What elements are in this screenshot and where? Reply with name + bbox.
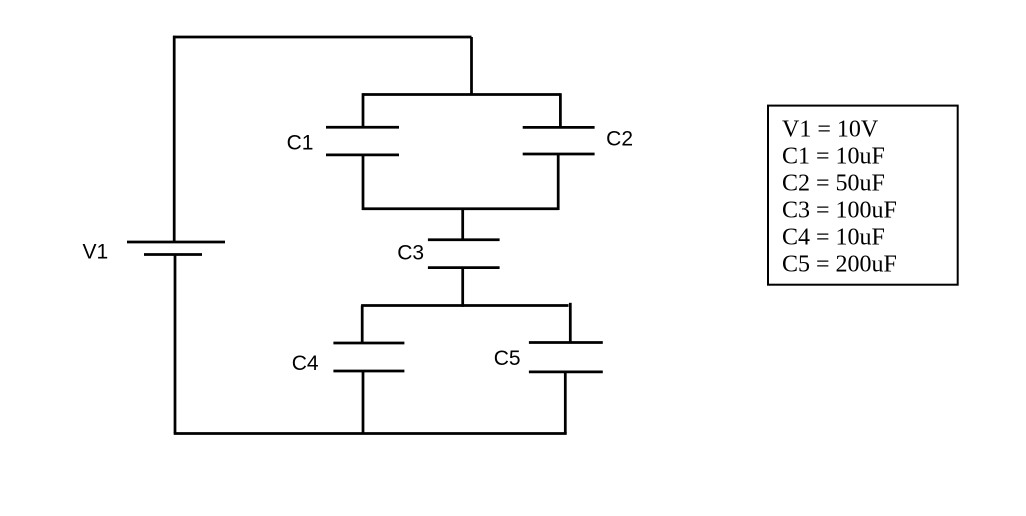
svg-text:C2: C2 <box>606 128 633 151</box>
label V1 <box>82 241 108 264</box>
value label C2 = 50uF <box>782 170 885 196</box>
svg-text:C3: C3 <box>397 242 424 265</box>
svg-text:C3 = 100uF: C3 = 100uF <box>782 198 897 224</box>
wire C3 top lead <box>461 209 464 240</box>
capacitor C1 top plate <box>326 126 399 129</box>
capacitor C5 top plate <box>529 341 603 344</box>
value label C4 = 10uF <box>782 225 885 251</box>
wire C5 top lead <box>569 303 572 343</box>
label C4 <box>292 352 319 375</box>
wire V1 negative lead down to bottom rail <box>174 255 177 434</box>
svg-text:V1: V1 <box>82 241 108 264</box>
value label C1 = 10uF <box>782 143 885 169</box>
svg-text:C5 = 200uF: C5 = 200uF <box>782 252 897 278</box>
svg-text:C1 = 10uF: C1 = 10uF <box>782 143 885 169</box>
battery V1 long plate <box>127 241 225 244</box>
wire C4 bottom lead <box>362 371 365 434</box>
wire right vertical drop from top rail to C1/C2 node <box>470 37 473 95</box>
legend box <box>768 106 958 285</box>
wire C1/C2 top rail <box>363 93 561 96</box>
wire C3 bottom lead <box>461 268 464 307</box>
label C5 <box>494 347 521 370</box>
svg-text:C2 = 50uF: C2 = 50uF <box>782 170 885 196</box>
capacitor C1 bottom plate <box>326 154 399 157</box>
wire left vertical V1 positive lead <box>173 36 176 242</box>
wire C2 top lead <box>559 93 562 127</box>
wire bottom rail <box>174 432 567 435</box>
capacitor C2 bottom plate <box>523 153 595 156</box>
wire C2 bottom lead <box>557 154 560 210</box>
svg-text:C5: C5 <box>494 347 521 370</box>
wire C1/C2 bottom rail <box>362 207 558 210</box>
svg-text:C1: C1 <box>287 131 314 154</box>
battery V1 short plate <box>144 253 202 256</box>
wire C4 top lead <box>361 306 364 344</box>
value label V1 = 10V <box>782 116 879 142</box>
svg-text:C4 = 10uF: C4 = 10uF <box>782 225 885 251</box>
wire C4/C5 top rail <box>361 304 568 307</box>
capacitor C4 top plate <box>333 342 404 345</box>
svg-text:V1 = 10V: V1 = 10V <box>782 116 879 142</box>
svg-text:C4: C4 <box>292 352 319 375</box>
wire top rail from V1 to C1/C2 branch <box>173 36 472 39</box>
label C1 <box>287 131 314 154</box>
label C3 <box>397 242 424 265</box>
wire C1 top lead <box>362 93 365 127</box>
capacitor C4 bottom plate <box>333 370 404 373</box>
capacitor C3 top plate <box>428 238 500 241</box>
capacitor C3 bottom plate <box>428 266 500 269</box>
wire C1 bottom lead <box>362 155 365 210</box>
label C2 <box>606 128 633 151</box>
capacitor C2 top plate <box>523 126 595 129</box>
wire C5 bottom lead <box>564 372 567 434</box>
capacitor C5 bottom plate <box>529 371 603 374</box>
value label C5 = 200uF <box>782 252 897 278</box>
value label C3 = 100uF <box>782 198 897 224</box>
